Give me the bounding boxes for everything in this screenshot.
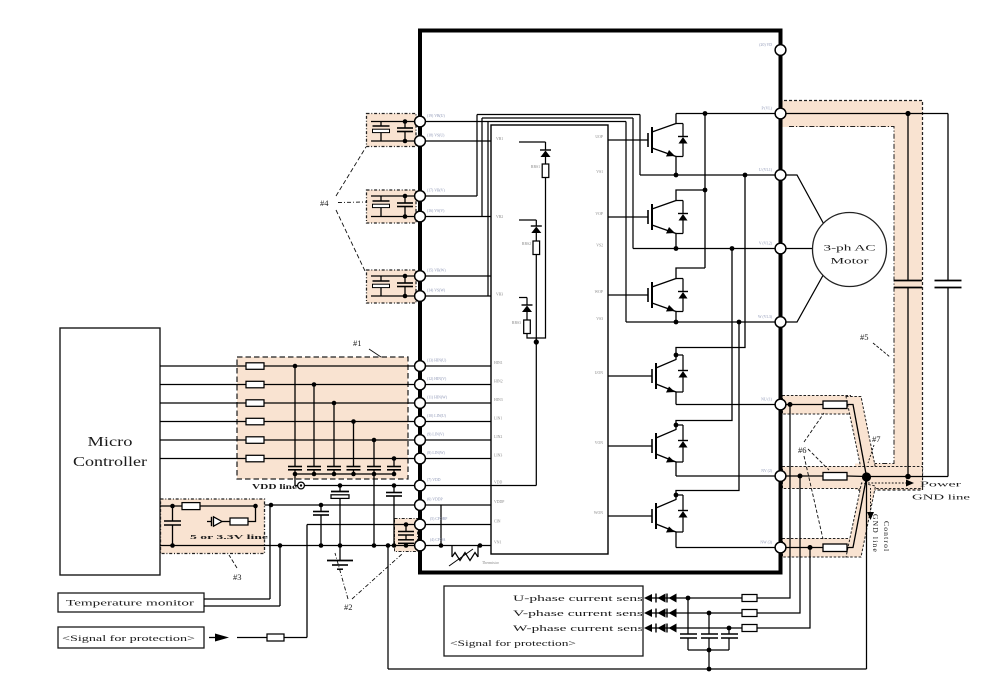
svg-text:5 or 3.3V line: 5 or 3.3V line bbox=[190, 534, 268, 541]
wire VDDP to VN1 vertical bbox=[440, 505, 442, 546]
capacitor C filter5 with drop wire continuing to VSS rail bbox=[367, 438, 381, 548]
region #5 outer dashed border bbox=[784, 101, 923, 491]
svg-text:(17) VB(V): (17) VB(V) bbox=[427, 189, 445, 193]
thermistor bbox=[449, 546, 478, 567]
capacitor C boot V electrolytic bbox=[373, 196, 390, 217]
svg-text:LIN2: LIN2 bbox=[494, 435, 502, 439]
svg-text:CIN: CIN bbox=[494, 520, 501, 524]
diode D2 freewheel bbox=[676, 201, 688, 234]
capacitor C electrolytic on VDD line bbox=[331, 486, 349, 548]
pin U bbox=[775, 170, 786, 181]
wire N U line bbox=[676, 404, 781, 406]
bootstrap group W wires bbox=[371, 274, 420, 299]
wire 5V line to pin bbox=[265, 503, 421, 508]
capacitor C sense V bbox=[701, 613, 718, 650]
node star GND junction bbox=[862, 472, 871, 481]
leader dotted power GND with arrow bbox=[868, 480, 914, 487]
wire LIN2 bbox=[420, 439, 491, 441]
wire rail up to VSS bbox=[387, 546, 389, 670]
svg-text:RBS1: RBS1 bbox=[531, 165, 540, 169]
wire sense cap common with drop to rail bbox=[688, 648, 729, 669]
bootstrap diode chain 2 stub bbox=[519, 219, 536, 221]
svg-text:#4: #4 bbox=[320, 198, 329, 208]
wire input line 4 bbox=[160, 421, 420, 423]
capacitor C bulk electrolytic bbox=[894, 114, 922, 477]
svg-text:V (VL2): V (VL2) bbox=[759, 242, 773, 246]
svg-text:(20) VD: (20) VD bbox=[759, 43, 772, 47]
IPM outer package box bbox=[420, 31, 781, 573]
resistor R sense V bbox=[742, 610, 757, 617]
capacitor C filter6 with drop wire bbox=[387, 456, 401, 474]
pin VDD bbox=[415, 480, 426, 491]
svg-text:(9) LIN(V): (9) LIN(V) bbox=[427, 433, 445, 437]
wire shunt U to GND node bbox=[847, 405, 867, 477]
wire control GND down from node bbox=[866, 477, 868, 669]
resistor R shunt V bbox=[823, 473, 847, 481]
pin LIN3 bbox=[415, 453, 426, 464]
capacitor C3 bbox=[164, 506, 181, 548]
gate driver inner IC box bbox=[491, 125, 608, 554]
arrow signal direction bbox=[215, 634, 229, 642]
svg-text:(12) HIN(V): (12) HIN(V) bbox=[427, 377, 447, 381]
clamp diode pair U bbox=[656, 594, 677, 603]
resistor R signal bbox=[267, 634, 284, 641]
svg-text:#2: #2 bbox=[344, 602, 353, 612]
wire bundle line B bbox=[482, 117, 633, 119]
capacitor C filter4 with drop wire bbox=[347, 419, 361, 474]
svg-text:WON: WON bbox=[594, 511, 603, 515]
svg-text:U (VL1): U (VL1) bbox=[759, 168, 773, 172]
pin HIN3 bbox=[415, 398, 426, 409]
wire VS(W) pin to driver bbox=[420, 295, 491, 297]
diode DBS2 bbox=[531, 220, 542, 241]
arrow into sense box W bbox=[644, 624, 652, 632]
resistor R shunt U bbox=[823, 401, 847, 409]
capacitor C boot W electrolytic bbox=[373, 276, 390, 296]
svg-text:VB1: VB1 bbox=[496, 137, 503, 141]
svg-text:NW (3): NW (3) bbox=[760, 541, 772, 545]
svg-text:UON: UON bbox=[595, 371, 603, 375]
resistor RBS1 bbox=[542, 164, 549, 178]
wire temp monitor to VSS bbox=[204, 605, 280, 607]
resistor R sense W bbox=[742, 625, 757, 632]
pin labels right side bbox=[758, 43, 773, 545]
wire bundle left vertical to VS(W) bbox=[487, 122, 489, 297]
svg-text:NV (2): NV (2) bbox=[761, 469, 773, 473]
svg-text:(11) HIN(W): (11) HIN(W) bbox=[427, 396, 448, 400]
transistor Q6 low-side W IGBT bbox=[608, 493, 678, 548]
diode D3 freewheel bbox=[676, 279, 688, 312]
capacitor C2b in region 2 bbox=[398, 535, 414, 548]
svg-text:VDD line: VDD line bbox=[252, 482, 298, 491]
wire LIN3 bbox=[420, 458, 491, 460]
diode DBS1 bbox=[540, 142, 551, 164]
pin NW bbox=[775, 542, 786, 553]
wire V riser low-side bbox=[676, 249, 732, 426]
capacitor C sense U bbox=[680, 598, 697, 650]
capacitor C boot U electrolytic bbox=[373, 122, 390, 142]
svg-text:VB3: VB3 bbox=[496, 293, 503, 297]
highlight region #4 bootstrap box V bbox=[367, 190, 417, 223]
wire input line 5 bbox=[160, 439, 420, 441]
svg-text:WOP: WOP bbox=[595, 290, 603, 294]
svg-text:GND line: GND line bbox=[871, 514, 880, 553]
wire chain2 down bbox=[535, 255, 537, 486]
highlight region #4 bootstrap box U bbox=[367, 114, 417, 147]
wire V phase line bbox=[633, 246, 781, 251]
wire VB(W) pin wire bbox=[420, 275, 491, 277]
highlight diagonal band U to GND node bbox=[846, 397, 876, 472]
svg-text:(14) VS(W): (14) VS(W) bbox=[427, 289, 446, 293]
capacitor C boot V ceramic bbox=[397, 196, 413, 217]
svg-text:VDD: VDD bbox=[494, 481, 502, 485]
svg-text:#7: #7 bbox=[872, 434, 881, 444]
driver box internal labels bbox=[494, 135, 603, 545]
clamp diode pair V bbox=[656, 609, 677, 618]
transistor Q3 high-side W IGBT bbox=[608, 268, 705, 322]
pin LIN1 bbox=[415, 416, 426, 427]
wire V sense drop bbox=[652, 476, 800, 613]
bootstrap diode chain 1 stub bbox=[519, 141, 546, 143]
diode D6 freewheel bbox=[676, 495, 688, 532]
wire filter cap common rail bbox=[293, 472, 397, 486]
svg-text:VS2: VS2 bbox=[596, 244, 603, 248]
resistor R input3 bbox=[246, 400, 264, 407]
svg-text:Power: Power bbox=[920, 481, 962, 489]
highlight diagonal band W to GND node bbox=[846, 483, 876, 557]
wire chain3 down to junction bbox=[527, 334, 536, 339]
bootstrap group U wires bbox=[371, 119, 420, 143]
wire shunt V bbox=[781, 474, 824, 479]
wire U sense drop bbox=[652, 405, 790, 599]
pin VB(W) bbox=[415, 271, 426, 282]
pin CIN bbox=[415, 519, 426, 530]
highlight region #1 noise filter box bbox=[237, 357, 408, 479]
wire motor U connection bbox=[781, 175, 824, 224]
wire high-side collector bus vertical bbox=[703, 114, 708, 269]
wire VSS rail bbox=[160, 543, 420, 548]
svg-text:VOP: VOP bbox=[595, 212, 603, 216]
capacitor C2a in region 2 bbox=[398, 522, 414, 535]
wire W sense drop bbox=[652, 548, 810, 629]
capacitor C boot W ceramic bbox=[397, 276, 413, 296]
svg-text:Thermistor: Thermistor bbox=[482, 561, 500, 565]
svg-text:VN1: VN1 bbox=[494, 541, 501, 545]
highlight region #6 shunt band U bbox=[783, 396, 851, 415]
pin VB(U) bbox=[415, 116, 426, 127]
wire 5V supply inside region 3 bbox=[160, 504, 258, 522]
svg-text:(15) VB(W): (15) VB(W) bbox=[427, 269, 446, 273]
pin VS(W) bbox=[415, 291, 426, 302]
motor M1 3-phase AC motor bbox=[813, 213, 887, 287]
pin LIN2 bbox=[415, 435, 426, 446]
diode D3 reference bbox=[207, 517, 230, 526]
wire HIN2 bbox=[420, 384, 491, 386]
Micro Controller box bbox=[60, 328, 160, 575]
pin P bbox=[775, 108, 786, 119]
wire power GND return bbox=[867, 474, 949, 480]
pin HIN1 bbox=[415, 361, 426, 372]
resistor R input2 bbox=[246, 381, 264, 388]
capacitor C filter2 with drop wire bbox=[307, 382, 321, 474]
wire VB(U) pin into bundle line C bbox=[420, 121, 626, 123]
svg-text:VB2: VB2 bbox=[496, 215, 503, 219]
pin VS(U) bbox=[415, 136, 426, 147]
wire shunt U bbox=[781, 402, 824, 407]
wire W phase line bbox=[626, 320, 781, 325]
diode D5 freewheel bbox=[676, 425, 688, 462]
svg-text:RBS2: RBS2 bbox=[522, 242, 531, 246]
resistor R3b bbox=[230, 518, 248, 525]
svg-text:(19) VB(U): (19) VB(U) bbox=[427, 114, 445, 118]
svg-text:VON: VON bbox=[595, 441, 603, 445]
pin VB(V) bbox=[415, 191, 426, 202]
wire motor V connection bbox=[781, 248, 814, 250]
wire CIN pin bbox=[420, 524, 491, 526]
wire motor W connection bbox=[781, 275, 824, 323]
svg-text:(18) VS(U): (18) VS(U) bbox=[427, 134, 445, 138]
svg-text:Micro: Micro bbox=[88, 434, 133, 449]
wire CIN line bbox=[307, 524, 420, 526]
highlight region #3 supply box bbox=[161, 499, 265, 554]
svg-text:NU (1): NU (1) bbox=[761, 398, 773, 402]
arrow into sense box V bbox=[644, 609, 652, 617]
wire HIN3 bbox=[420, 402, 491, 404]
clamp diode pair W bbox=[656, 624, 677, 633]
wire bottom control GND rail bbox=[388, 667, 867, 672]
svg-text:#6: #6 bbox=[798, 445, 807, 455]
highlight region #5 power path band bbox=[781, 101, 923, 491]
svg-text:LIN1: LIN1 bbox=[494, 417, 502, 421]
wire U phase line bbox=[640, 173, 781, 178]
svg-text:VS3: VS3 bbox=[596, 317, 603, 321]
resistor R shunt W bbox=[823, 544, 847, 552]
pin VS(V) bbox=[415, 211, 426, 222]
wire shunt W to GND node bbox=[847, 478, 867, 548]
svg-text:(16) VS(V): (16) VS(V) bbox=[427, 209, 445, 213]
svg-text:Temperature monitor: Temperature monitor bbox=[66, 599, 195, 608]
svg-text:RBS3: RBS3 bbox=[512, 321, 521, 325]
diode D4 freewheel bbox=[676, 355, 688, 392]
pin NV bbox=[775, 471, 786, 482]
leader dotted control GND with arrow bbox=[867, 488, 874, 520]
wire P bus to smoothing caps bbox=[781, 111, 949, 116]
highlight region #6 shunt band V merged with power GND band bbox=[783, 467, 923, 489]
wire VDD pin to chain rail bbox=[420, 485, 536, 487]
capacitor C sense W bbox=[721, 628, 738, 650]
transistor Q1 high-side U IGBT bbox=[608, 114, 676, 176]
wire input line 2 bbox=[160, 384, 420, 386]
capacitor C filter3 with drop wire bbox=[327, 401, 341, 474]
wire VDD line bbox=[295, 483, 420, 488]
resistor R input4 bbox=[246, 418, 264, 425]
wire chain1 down bbox=[536, 178, 545, 343]
resistor RBS2 bbox=[533, 241, 540, 255]
wire W riser low-side bbox=[676, 322, 739, 495]
arrow into sense box U bbox=[644, 594, 652, 602]
svg-text:W (VL3): W (VL3) bbox=[758, 315, 773, 319]
svg-text:(8) LIN(W): (8) LIN(W) bbox=[427, 451, 446, 455]
wire temp monitor to 5V line bbox=[204, 598, 270, 600]
resistor R sense U bbox=[742, 595, 757, 602]
svg-text:UOP: UOP bbox=[595, 135, 603, 139]
svg-text:(5) CFOBP: (5) CFOBP bbox=[430, 517, 447, 521]
wire input line 1 bbox=[160, 365, 420, 367]
highlight region #6 shunt band W bbox=[783, 539, 851, 558]
resistor RBS3 bbox=[524, 320, 531, 334]
capacitor C snubber film bbox=[935, 114, 962, 477]
wire input line 3 bbox=[160, 402, 420, 404]
svg-text:#3: #3 bbox=[233, 572, 242, 582]
wire VB(V) pin wire bbox=[420, 195, 477, 197]
bootstrap group V wires bbox=[371, 194, 420, 219]
diode DBS3 bbox=[522, 298, 533, 321]
highlight region #2 cap box bbox=[395, 519, 418, 552]
pin HIN2 bbox=[415, 379, 426, 390]
wire VDDP pin bbox=[420, 504, 491, 506]
transistor Q5 low-side V IGBT bbox=[608, 423, 678, 476]
wire VS(V) pin to driver bbox=[420, 216, 491, 218]
svg-text:HIN2: HIN2 bbox=[494, 380, 503, 384]
svg-text:VDDP: VDDP bbox=[494, 500, 504, 504]
capacitor C on 5V line bbox=[313, 505, 329, 548]
node sense U cap tap bbox=[686, 596, 691, 601]
resistor R input5 bbox=[246, 437, 264, 444]
wire U riser low-side bbox=[676, 175, 745, 355]
pin W bbox=[775, 317, 786, 328]
svg-text:3-ph AC: 3-ph AC bbox=[824, 244, 876, 253]
region #5 inner dash-dot border bbox=[789, 127, 894, 464]
wire bundle left vertical to VB(V) bbox=[476, 115, 478, 197]
pin V bbox=[775, 243, 786, 254]
wire bundle drop to W phase bbox=[625, 122, 627, 323]
wire LIN1 bbox=[420, 421, 491, 423]
node chain junction bbox=[534, 339, 539, 344]
wire signal to CIN bbox=[237, 637, 267, 639]
pin NU bbox=[775, 399, 786, 410]
svg-text:(7) VDD: (7) VDD bbox=[427, 478, 441, 482]
Signal for protection box bbox=[58, 627, 204, 648]
current sensing signal box bbox=[444, 586, 643, 656]
svg-text:HIN3: HIN3 bbox=[494, 398, 503, 402]
svg-text:Control: Control bbox=[882, 521, 891, 552]
transistor Q2 high-side V IGBT bbox=[608, 190, 705, 249]
capacitor C ceramic VDD to VSS bbox=[386, 486, 402, 548]
wire VS(U) pin to driver bbox=[420, 140, 491, 142]
wire N W line bbox=[676, 547, 781, 549]
svg-text:(13) HIN(U): (13) HIN(U) bbox=[427, 359, 447, 363]
wire HIN1 bbox=[420, 365, 491, 367]
svg-text:Controller: Controller bbox=[73, 454, 148, 469]
wire bundle line A bbox=[477, 114, 640, 116]
transistor Q4 low-side U IGBT bbox=[608, 353, 678, 405]
svg-text:V-phase current sensing: V-phase current sensing bbox=[513, 609, 663, 618]
svg-text:(4) CFOA: (4) CFOA bbox=[430, 538, 446, 542]
wire bundle left vertical to VS(V) bbox=[481, 118, 483, 217]
resistor R3a bbox=[182, 503, 200, 510]
wire N V line bbox=[676, 475, 781, 477]
svg-text:#1: #1 bbox=[353, 338, 362, 348]
diode D1 freewheel bbox=[676, 124, 688, 157]
svg-text:Motor: Motor bbox=[831, 257, 870, 266]
pin labels left side bbox=[427, 114, 448, 542]
pin VN1 bbox=[415, 540, 426, 551]
svg-text:(6) VDDP: (6) VDDP bbox=[427, 498, 443, 502]
highlight region #4 bootstrap box W bbox=[367, 270, 417, 303]
ground symbol control GND bbox=[327, 546, 353, 570]
node VDD line connection circle bbox=[298, 482, 305, 489]
svg-text:P (VL): P (VL) bbox=[761, 107, 772, 111]
svg-text:W-phase current sensing: W-phase current sensing bbox=[513, 624, 663, 633]
wire shunt W bbox=[781, 545, 824, 550]
wire VN1 pin bbox=[420, 543, 491, 548]
pin VDDP bbox=[415, 500, 426, 511]
svg-text:GND line: GND line bbox=[912, 494, 970, 502]
pin VD top right bbox=[775, 45, 786, 56]
wire input line 6 bbox=[160, 458, 420, 460]
wire P rail bbox=[676, 111, 781, 116]
svg-text:HIN1: HIN1 bbox=[494, 361, 503, 365]
svg-text:(10) LIN(U): (10) LIN(U) bbox=[427, 414, 447, 418]
capacitor C filter1 with drop wire bbox=[288, 364, 302, 474]
node sense V cap tap bbox=[707, 611, 712, 616]
svg-text:VS1: VS1 bbox=[596, 170, 603, 174]
wire shunt V to GND node bbox=[847, 475, 867, 478]
svg-text:<Signal for protection>: <Signal for protection> bbox=[450, 639, 577, 648]
svg-text:LIN3: LIN3 bbox=[494, 454, 502, 458]
resistor R input6 bbox=[246, 455, 264, 462]
Temperature monitor box bbox=[58, 593, 204, 612]
wire bundle drop to U phase bbox=[639, 115, 641, 176]
bootstrap diode chain 3 stub bbox=[519, 297, 527, 299]
node sense W cap tap bbox=[727, 626, 732, 631]
capacitor C boot U ceramic bbox=[397, 122, 413, 142]
svg-text:#5: #5 bbox=[860, 332, 869, 342]
wire bundle drop to V phase bbox=[632, 118, 634, 249]
svg-text:U-phase current sensing: U-phase current sensing bbox=[513, 594, 663, 603]
resistor R input1 bbox=[246, 363, 264, 370]
svg-text:<Signal for protection>: <Signal for protection> bbox=[62, 634, 196, 643]
